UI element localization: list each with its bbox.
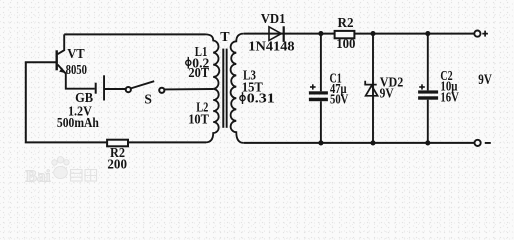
switch S right contact <box>159 88 164 93</box>
svg-text:VT: VT <box>67 46 85 61</box>
label 9V zener <box>380 85 394 100</box>
wire: battery to switch <box>105 88 126 90</box>
junction node top C2 <box>425 31 430 36</box>
label 200 <box>107 156 127 171</box>
transformer winding L3 (secondary) <box>231 34 244 143</box>
junction node bottom C2 <box>425 140 430 145</box>
diode VD1 <box>269 26 285 42</box>
transistor VT base bar <box>56 50 58 70</box>
wire: secondary top rail to + terminal <box>244 33 474 35</box>
label 50V <box>330 92 348 107</box>
label C1 <box>330 71 342 86</box>
label 100 <box>336 36 356 51</box>
output - terminal <box>475 140 491 146</box>
label 10u <box>440 79 457 94</box>
transistor VT collector <box>58 34 65 54</box>
wire: bottom right rail <box>244 142 475 144</box>
label T <box>220 30 230 45</box>
svg-text:9V: 9V <box>380 85 394 100</box>
label GB <box>75 90 93 105</box>
label R2 top <box>338 15 354 30</box>
battery GB positive plate <box>103 75 105 100</box>
svg-text:100: 100 <box>336 36 356 51</box>
label C2 <box>440 68 452 83</box>
wire: switch to transformer center tap <box>164 88 213 90</box>
label phi 0.31 <box>240 91 275 106</box>
svg-text:VD1: VD1 <box>261 11 286 26</box>
resistor R2 (bottom) box <box>107 140 128 147</box>
label 1N4148 <box>248 38 295 53</box>
label L3 <box>243 67 256 82</box>
capacitor C2 <box>418 34 438 143</box>
svg-text:10T: 10T <box>188 111 209 126</box>
label VT <box>67 46 85 61</box>
label 500mAh <box>57 115 99 130</box>
zener diode VD2 <box>365 34 377 143</box>
label L2 <box>196 99 208 114</box>
junction node top C1 <box>318 31 323 36</box>
junction node bottom VD2 <box>370 140 375 145</box>
svg-text:200: 200 <box>107 156 127 171</box>
transistor VT emitter with arrow <box>58 65 95 89</box>
capacitor C1 <box>309 34 328 143</box>
wire: left loop (base bias / bottom-left rail) <box>26 62 206 142</box>
svg-text:20T: 20T <box>188 65 209 80</box>
label L1 <box>195 44 208 59</box>
svg-text:50V: 50V <box>330 92 348 107</box>
transformer T winding L1 (primary upper) <box>206 34 220 89</box>
svg-text:Bai: Bai <box>26 167 51 186</box>
svg-text:9V: 9V <box>478 72 492 88</box>
label 15T <box>242 79 263 94</box>
label 16V <box>440 90 459 105</box>
label 20T <box>188 65 209 80</box>
label S <box>144 91 152 106</box>
battery GB negative plate <box>95 83 97 94</box>
svg-text:S: S <box>144 91 152 106</box>
junction node bottom C1 <box>318 140 323 145</box>
svg-text:R2: R2 <box>338 15 354 30</box>
wire: collector to transformer primary top <box>64 33 205 35</box>
label VD1 <box>261 11 286 26</box>
svg-text:500mAh: 500mAh <box>57 115 99 130</box>
svg-text:0.31: 0.31 <box>247 91 275 106</box>
label 9V output <box>478 72 492 88</box>
svg-text:T: T <box>220 30 230 45</box>
label 1.2V <box>68 103 92 118</box>
transformer T winding L2 (primary lower) <box>206 89 219 142</box>
label 10T <box>188 111 209 126</box>
label VD2 <box>380 74 404 89</box>
output + terminal <box>474 30 488 36</box>
svg-text:16V: 16V <box>440 90 459 105</box>
label phi 0.2 <box>186 55 210 70</box>
label R2 bottom <box>110 145 125 160</box>
label 8050 <box>66 62 88 77</box>
label 47u <box>330 81 347 96</box>
svg-text:8050: 8050 <box>66 62 88 77</box>
resistor R2 (top) box <box>335 31 355 38</box>
svg-text:1N4148: 1N4148 <box>248 38 295 53</box>
transformer core <box>222 49 227 128</box>
switch S blade <box>131 81 154 88</box>
junction node top VD2 <box>370 31 375 36</box>
watermark baidu baike <box>26 157 97 186</box>
switch S left contact <box>126 87 131 92</box>
